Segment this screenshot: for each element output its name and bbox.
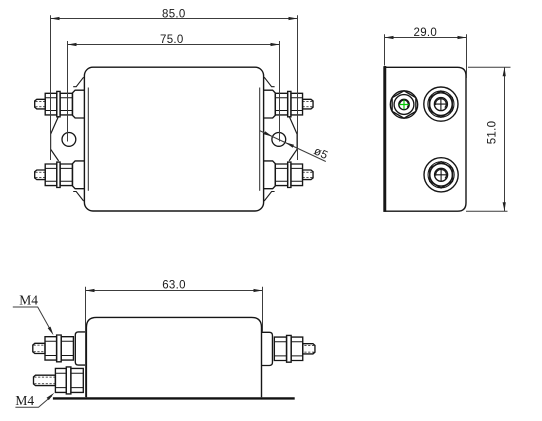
svg-text:M4: M4	[15, 393, 34, 408]
dimension 51.0 extension lines	[466, 67, 511, 211]
svg-text:29.0: 29.0	[414, 27, 438, 39]
terminal bolt upper-left (front view)	[35, 90, 85, 118]
bottom view: body outline	[86, 317, 261, 397]
terminal bolt lower-right (front view)	[263, 161, 313, 189]
dimension 63.0 extension lines	[86, 287, 263, 397]
line terminal upper (side view)	[424, 87, 458, 121]
bottom view: mounting baseplate	[53, 397, 295, 399]
front view: case front-face fold lines	[88, 88, 259, 191]
front view: filter body (rounded case outline)	[84, 67, 263, 211]
dimension 85.0 line with arrows	[51, 18, 298, 20]
terminal bolt lower-left (front view)	[35, 161, 85, 189]
front view: left flange chamfer folds	[73, 77, 83, 201]
dimension 85.0 extension lines	[51, 15, 298, 160]
bottom view upper-left terminal bolt	[33, 332, 87, 365]
dimension 75.0 line with arrows	[68, 44, 280, 46]
svg-text:51.0: 51.0	[487, 121, 499, 145]
right mounting hole ø5	[272, 133, 286, 147]
right mounting ear outline	[289, 116, 297, 161]
bottom view lower-left terminal bolt (long stud)	[34, 367, 84, 394]
side view: body outline (rounded right corners)	[384, 67, 466, 211]
svg-text:M4: M4	[19, 293, 38, 308]
ø5 hole leader line	[259, 131, 325, 162]
dimension 63.0 line with arrows	[86, 290, 263, 292]
bottom view right terminal bolt	[261, 332, 315, 365]
svg-text:63.0: 63.0	[162, 280, 186, 292]
left mounting hole ø5	[62, 133, 76, 147]
terminal bolt upper-right (front view)	[263, 90, 313, 118]
dimension 51.0 line with arrows	[504, 67, 506, 211]
front view: right flange chamfer folds	[264, 77, 274, 201]
svg-text:85.0: 85.0	[162, 8, 186, 20]
side view: flange left edge (thick)	[384, 66, 387, 212]
left mounting ear outline	[51, 116, 59, 161]
dimension 75.0 extension lines	[68, 41, 280, 142]
ground terminal (green)	[390, 91, 417, 118]
svg-text:75.0: 75.0	[160, 34, 184, 46]
dimension 29.0 extension lines	[385, 34, 467, 78]
dimension 29.0 line with arrows	[385, 37, 467, 39]
line terminal lower (side view)	[424, 158, 458, 192]
